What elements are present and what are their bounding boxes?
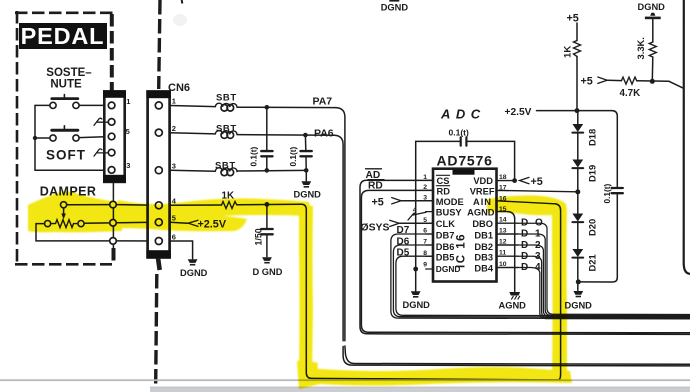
svg-text:0.1(t): 0.1(t) [602, 183, 612, 203]
pin 5 pedal lower [110, 220, 117, 227]
diode D19 [577, 133, 579, 160]
pin 11 DB3 [497, 255, 519, 257]
svg-text:SBT: SBT [216, 124, 237, 135]
ground DGND diode chain [573, 291, 583, 295]
svg-text:6: 6 [172, 232, 176, 241]
svg-text:DB5: DB5 [436, 253, 455, 263]
svg-text:DGND: DGND [180, 268, 208, 278]
svg-text:0.1(t): 0.1(t) [288, 146, 298, 166]
svg-text:3.3K.: 3.3K. [635, 37, 646, 59]
svg-text:0.1(t): 0.1(t) [249, 146, 259, 166]
inductor SBT2 [215, 130, 237, 134]
pin 16 AIN [497, 201, 556, 204]
svg-text:DB4: DB4 [474, 264, 493, 274]
highlighter bottom band [297, 359, 572, 389]
wire +5 to VDD with junction [512, 178, 517, 183]
wire PA7 down-corner [336, 108, 690, 365]
svg-text:PA7: PA7 [313, 95, 333, 107]
pedal unit dashed enclosure [15, 11, 114, 264]
svg-text:11: 11 [499, 250, 506, 257]
svg-text:10: 10 [499, 261, 507, 268]
svg-text:DBO: DBO [472, 219, 493, 229]
wire 4.7K to right border [637, 80, 669, 83]
pin 4 pedal lower [110, 201, 117, 208]
svg-text:3: 3 [172, 161, 176, 170]
svg-text:CS: CS [437, 176, 450, 186]
ground DGND pin9 [411, 291, 421, 295]
pin 4 BUSY (nc) [426, 211, 433, 213]
svg-text:1: 1 [126, 97, 130, 106]
pin 2 RD [426, 189, 433, 191]
svg-text:CLK: CLK [436, 219, 455, 229]
svg-text:DGND: DGND [403, 300, 431, 310]
svg-text:DGND: DGND [565, 300, 593, 310]
resistor 3.3K vertical [652, 19, 654, 42]
pin 12 DB2 [497, 244, 519, 246]
svg-text:D20: D20 [587, 219, 598, 236]
pin 2 CN6 [155, 129, 162, 136]
pin 3 MODE [426, 200, 433, 202]
resistor 1K row4 [222, 202, 237, 209]
pin 1 CS [426, 179, 433, 181]
svg-text:+5: +5 [581, 75, 593, 87]
wire pot left down to row6 [36, 224, 110, 241]
pin 3 pedal connector [108, 167, 115, 174]
svg-text:DB3: DB3 [474, 253, 493, 263]
highlighter band row4 (wiper to 1K wire) [118, 198, 312, 217]
ground DGND top edge [389, 0, 399, 2]
wire left bus of switches [35, 105, 108, 170]
svg-text:13: 13 [499, 227, 507, 234]
wire row6 to ground [170, 241, 193, 259]
wire right border drop [684, 0, 690, 274]
pin 13 DB1 [497, 233, 519, 235]
scan smudge [173, 14, 187, 26]
junction pin9 node [413, 267, 418, 272]
pin nc2 pedal connector [108, 119, 115, 126]
ground inverted 3.3K [650, 13, 655, 16]
label +2.5V with arrow row5 [170, 221, 188, 224]
pin 5 CN6 [155, 219, 162, 226]
capacitor 0.1(t) diode clamp [612, 187, 623, 189]
capacitor 1/50 electrolytic [266, 204, 268, 228]
ground AGND hatched [509, 292, 520, 296]
wire AIN riser down to damper bus [555, 204, 561, 380]
svg-text:PEDAL: PEDAL [21, 23, 105, 49]
svg-text:DGND: DGND [638, 2, 666, 12]
pin 4 CN6 [155, 202, 162, 209]
wire row4 CN6 to 1K [170, 204, 222, 206]
capacitor 0.1(t) VDD bypass loop [416, 141, 515, 269]
wire stub below pedal strip [112, 182, 114, 248]
wire row1 SBT1 to PA7 corner [237, 106, 336, 108]
wire row1 CN6 to SBT1 [170, 106, 215, 107]
svg-text:17: 17 [499, 185, 507, 192]
svg-text:IC 16: IC 16 [456, 233, 468, 268]
svg-text:AGND: AGND [499, 301, 527, 311]
wire stub top edge [181, 0, 184, 4]
junction row2-cap2 [303, 133, 308, 138]
pin 5 CLK [426, 222, 433, 224]
pin 1 CN6 [155, 102, 162, 109]
pin 14 DB0 [497, 222, 519, 224]
switch soft [35, 137, 50, 139]
svg-text:SBT: SBT [215, 161, 236, 172]
svg-text:2: 2 [172, 124, 176, 133]
wire soft to pin5 [79, 137, 108, 138]
wire AGND down [508, 212, 515, 292]
junction row1-cap1 [265, 105, 270, 110]
page divider dashed line [159, 0, 160, 89]
svg-text:9: 9 [423, 261, 427, 268]
svg-text:ØSYS: ØSYS [361, 223, 390, 234]
wire row4 1K to corner [237, 203, 302, 205]
junction cap1 bottom [265, 168, 270, 173]
pin 7 DB6 [426, 244, 433, 246]
bottom scan artifacts [0, 379, 690, 392]
svg-text:PA6: PA6 [314, 128, 334, 140]
wire row3 SBT3 to ground node [237, 169, 306, 172]
junction diode chain bottom [576, 279, 581, 284]
svg-text:1: 1 [172, 96, 176, 105]
pin 6 pedal lower [110, 238, 117, 245]
pin 1 pedal connector [108, 102, 115, 109]
junction cap2 bottom [304, 168, 309, 173]
junction row4 C150 [265, 202, 270, 207]
pin 5 pedal connector [108, 133, 115, 140]
svg-text:1/50: 1/50 [254, 228, 264, 245]
wire pot right to row5 [84, 222, 110, 224]
svg-text:NUTE: NUTE [50, 79, 82, 91]
wire row2 SBT2 to PA6 corner [237, 134, 334, 137]
junction soft-left [33, 136, 37, 140]
wire PA6 down-corner [334, 135, 690, 366]
pin 8 DB5 [426, 255, 433, 257]
svg-text:5: 5 [126, 127, 130, 136]
svg-text:4.7K: 4.7K [620, 88, 641, 99]
pin 17 VREF [497, 190, 578, 191]
junction VREF clamp node [577, 168, 579, 213]
capacitor C-PA7 0.1(t) [266, 107, 268, 150]
svg-text:SOFT: SOFT [46, 148, 86, 163]
connector pedal-side strip [104, 92, 124, 182]
inductor SBT1 [215, 103, 237, 107]
pin 9 DGND [426, 268, 433, 270]
svg-text:DB1: DB1 [474, 231, 493, 241]
switch sostenuto [35, 104, 50, 106]
svg-text:DB2: DB2 [474, 242, 493, 252]
connector CN6 strip [148, 92, 170, 258]
junction +2.5V/1K/diodes [575, 108, 580, 113]
ground DGND filters [305, 170, 307, 181]
ground DGND 1/50 [262, 257, 272, 261]
svg-text:RD: RD [437, 186, 451, 196]
potentiometer damper [45, 221, 51, 227]
svg-text:CN6: CN6 [168, 82, 190, 94]
highlighter blob at AIN pin [487, 195, 567, 215]
svg-text:3: 3 [126, 161, 130, 170]
svg-text:VREF: VREF [470, 186, 495, 196]
pot wiper arrow [61, 202, 67, 208]
gray rule bottom [0, 379, 690, 381]
wire wiper row4 [67, 204, 110, 206]
svg-text:SBT: SBT [216, 93, 237, 104]
svg-text:BUSY: BUSY [436, 208, 463, 218]
svg-text:MODE: MODE [436, 197, 464, 207]
svg-text:1K: 1K [563, 46, 574, 58]
IC IC16 AD7576 body [433, 169, 497, 282]
pin 15 AGND [497, 211, 509, 213]
highlighter right vertical to AIN [552, 206, 567, 380]
svg-text:18: 18 [499, 174, 507, 181]
svg-text:D21: D21 [587, 254, 598, 271]
wire row3 CN6 to SBT3 [170, 170, 215, 171]
wire damper bottom bus to AIN riser [370, 379, 558, 380]
ground DGND row6 [188, 259, 198, 263]
pin nc4 pedal connector [108, 149, 115, 156]
svg-text:DGND: DGND [381, 2, 409, 12]
svg-text:D18: D18 [587, 129, 598, 146]
resistor 1K vertical [576, 23, 578, 41]
junction 4.7K/3.3K node [650, 79, 655, 84]
wire sostenuto to pin1 [79, 104, 108, 106]
svg-text:ADC: ADC [440, 107, 486, 122]
wire row2 CN6 to SBT2 [170, 133, 215, 134]
diode D20 [572, 214, 583, 222]
resistor 4.7K horizontal [622, 77, 637, 84]
PEDAL title block [19, 23, 107, 49]
svg-text:VDD: VDD [473, 176, 493, 186]
svg-text:0.1(t): 0.1(t) [449, 127, 469, 137]
svg-text:DB7: DB7 [436, 231, 455, 241]
highlighter blob over damper rows 4-5 [28, 192, 122, 233]
inductor SBT3 [215, 168, 237, 172]
pin 10 DB4 [497, 267, 519, 269]
svg-text:+2.5V: +2.5V [505, 107, 532, 118]
capacitor C-PA6 0.1(t) [304, 135, 306, 150]
diode D18 [577, 111, 579, 124]
svg-text:+5: +5 [531, 176, 543, 188]
svg-text:14: 14 [499, 217, 507, 224]
pin 18 VDD [497, 180, 515, 182]
highlighter vertical at x306 [299, 204, 313, 371]
diode D21 [577, 222, 579, 249]
svg-text:SOSTE–: SOSTE– [46, 67, 92, 79]
gray band bottom right [150, 387, 690, 392]
svg-text:+5: +5 [372, 196, 384, 208]
pin 6 DB7 [426, 233, 433, 235]
svg-text:DGND: DGND [436, 264, 461, 274]
pin 6 CN6 [155, 238, 162, 245]
highlighter band row5 (+2.5V wire) [118, 213, 247, 232]
wire damper signal down x306 [302, 204, 371, 378]
svg-text:AD7576: AD7576 [437, 153, 493, 169]
svg-text:DB6: DB6 [436, 242, 455, 252]
wire to parallel cap branch [612, 111, 617, 187]
svg-text:DGND: DGND [294, 190, 322, 200]
svg-text:12: 12 [499, 238, 507, 245]
svg-text:D GND: D GND [253, 267, 283, 277]
svg-text:D19: D19 [587, 165, 598, 182]
pin 3 CN6 [155, 167, 162, 174]
